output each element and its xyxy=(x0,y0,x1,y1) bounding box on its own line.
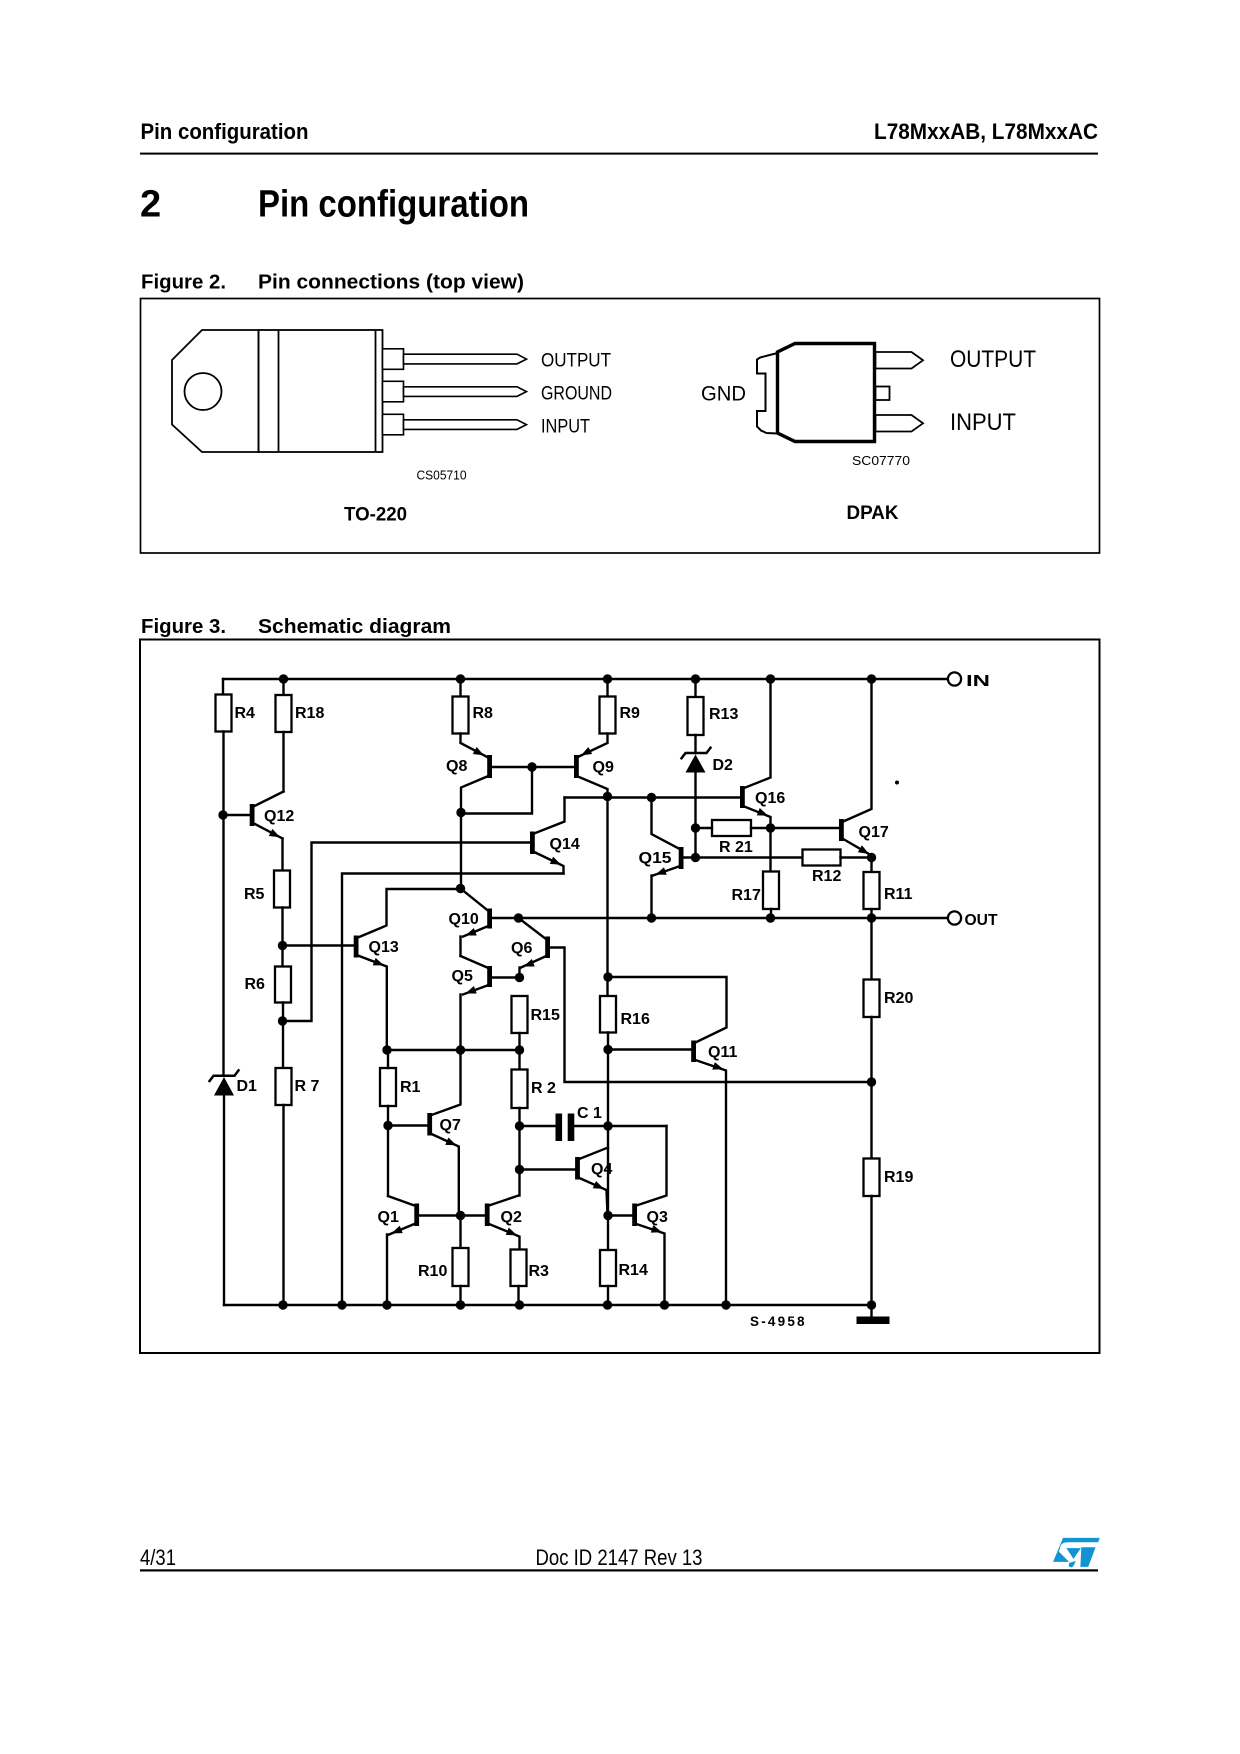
node IN rail at Q17 collector xyxy=(867,674,876,683)
svg-text:GROUND: GROUND xyxy=(541,384,612,405)
node IN rail at R8 xyxy=(456,674,465,683)
wire IN rail xyxy=(223,678,948,680)
node ground rail at Q11 emitter xyxy=(721,1300,730,1309)
resistor R10 xyxy=(453,1248,469,1286)
svg-text:R19: R19 xyxy=(884,1169,913,1186)
wire IN rail to R18 xyxy=(282,679,284,695)
resistor R4 xyxy=(216,695,232,732)
wire Q17 base xyxy=(771,827,840,829)
node R21 left tap xyxy=(691,823,700,832)
resistor R15 xyxy=(512,996,528,1033)
figure 3 frame xyxy=(140,640,1100,1354)
svg-text:Q7: Q7 xyxy=(440,1117,461,1134)
svg-text:Q16: Q16 xyxy=(755,790,785,807)
svg-text:INPUT: INPUT xyxy=(950,409,1016,436)
svg-text:R13: R13 xyxy=(709,706,738,723)
wire R1 to Q1 collector xyxy=(387,1106,389,1196)
node IN rail at Q16 collector xyxy=(766,674,775,683)
svg-text:GND: GND xyxy=(701,383,746,406)
transistor Q10 xyxy=(461,889,493,940)
DPAK INPUT lead xyxy=(876,415,924,432)
wire Q6 base to divider xyxy=(549,948,871,1083)
wire bias node Q14 collector to Q16 base xyxy=(565,796,741,798)
node OUT rail at R17 xyxy=(766,913,775,922)
node ground rail at Q14 emitter run xyxy=(337,1300,346,1309)
transistor Q3 xyxy=(632,1126,666,1305)
wire R17 to OUT rail xyxy=(770,909,772,918)
transistor Q8 xyxy=(461,734,575,889)
transistor Q15 xyxy=(652,798,803,919)
svg-text:R 2: R 2 xyxy=(531,1080,556,1097)
svg-text:Doc ID 2147 Rev 13: Doc ID 2147 Rev 13 xyxy=(536,1545,703,1570)
svg-text:R10: R10 xyxy=(418,1263,447,1280)
svg-text:R3: R3 xyxy=(529,1263,550,1280)
DPAK GND tab xyxy=(757,353,778,434)
transistor Q16 xyxy=(740,679,771,828)
wire OUT rail to R20 xyxy=(870,918,872,980)
svg-text:Q11: Q11 xyxy=(708,1044,737,1061)
wire Q3 base xyxy=(608,1214,632,1216)
wire Q11 base xyxy=(608,1048,691,1050)
resistor R9 xyxy=(600,697,616,734)
node Q11 collector tap xyxy=(603,972,612,981)
wire R4 to D1 xyxy=(222,732,224,1076)
node Q7 base junction xyxy=(383,1121,392,1130)
wire R7 to ground rail xyxy=(282,1105,284,1305)
transistor Q12 xyxy=(223,792,284,841)
svg-text:Schematic diagram: Schematic diagram xyxy=(258,616,451,638)
svg-text:Q10: Q10 xyxy=(449,911,479,928)
node IN rail at R9 xyxy=(603,674,612,683)
wire Q1 Q2 base tie xyxy=(419,1214,485,1216)
svg-text:S-4958: S-4958 xyxy=(750,1314,807,1329)
svg-text:SC07770: SC07770 xyxy=(852,454,910,468)
zener diode D1 xyxy=(210,1070,239,1095)
resistor R19 xyxy=(864,1159,880,1197)
wire Q14 emitter run xyxy=(342,874,564,1306)
node ground rail at R3 xyxy=(515,1300,524,1309)
resistor R1 xyxy=(380,1068,396,1106)
svg-text:Q17: Q17 xyxy=(859,824,889,841)
wire R14 to ground rail xyxy=(607,1286,609,1305)
node Q17 emitter junction xyxy=(867,853,876,862)
transistor Q9 xyxy=(574,734,608,797)
svg-text:Figure 3.: Figure 3. xyxy=(141,616,226,638)
svg-text:TO-220: TO-220 xyxy=(344,504,407,526)
svg-text:R1: R1 xyxy=(400,1079,421,1096)
resistor R16 xyxy=(600,996,616,1033)
transistor Q7 xyxy=(427,1050,460,1216)
footer rule xyxy=(140,1569,1098,1571)
svg-text:OUTPUT: OUTPUT xyxy=(950,346,1036,373)
svg-text:Q12: Q12 xyxy=(264,808,294,825)
transistor Q17 xyxy=(839,679,872,872)
wire C1 right lead xyxy=(574,1125,666,1127)
node bias at Q15 collector xyxy=(647,793,656,802)
resistor R2 xyxy=(512,1070,528,1109)
wire R21 left lead xyxy=(696,827,713,829)
node Q12 base tap xyxy=(218,810,227,819)
node tail node at R15 xyxy=(515,1045,524,1054)
node mirror bus at Q13 collector xyxy=(456,884,465,893)
wire R12 right lead xyxy=(841,856,872,858)
wire OUT rail xyxy=(491,917,948,919)
svg-text:R 7: R 7 xyxy=(295,1078,320,1095)
node ground rail at Q1 emitter xyxy=(382,1300,391,1309)
wire D2 anode to Q15 base xyxy=(694,773,696,858)
node IN rail at R18 xyxy=(279,674,288,683)
wire IN rail to R13 xyxy=(694,679,696,697)
svg-text:R15: R15 xyxy=(531,1007,560,1024)
svg-text:D2: D2 xyxy=(713,757,734,774)
node Q14 base return tap xyxy=(278,1016,287,1025)
resistor R6 xyxy=(275,967,291,1003)
node Q13 base tap xyxy=(278,941,287,950)
wire R3 to ground rail xyxy=(517,1286,519,1305)
transistor Q13 xyxy=(354,889,461,1050)
svg-text:Q1: Q1 xyxy=(378,1209,399,1226)
node Q8 Q9 base tie xyxy=(527,762,536,771)
svg-text:Q13: Q13 xyxy=(369,939,399,956)
transistor Q14 xyxy=(530,798,565,874)
wire R6 to R7 xyxy=(282,1003,284,1069)
svg-text:4/31: 4/31 xyxy=(140,1545,176,1570)
svg-text:C 1: C 1 xyxy=(577,1105,602,1122)
wire Q10 emitter to Q5 collector xyxy=(459,937,461,957)
node Q5 emitter tail xyxy=(456,1045,465,1054)
wire Q16 emitter to R17 xyxy=(769,828,771,872)
node Q9 collector xyxy=(603,792,612,801)
figure 2 frame xyxy=(141,299,1100,554)
wire C1 left lead xyxy=(520,1125,556,1127)
resistor R7 xyxy=(276,1068,292,1105)
svg-text:OUTPUT: OUTPUT xyxy=(541,351,611,372)
svg-text:Q2: Q2 xyxy=(501,1209,522,1226)
svg-text:IN: IN xyxy=(966,673,990,690)
wire R2 to Q2 collector xyxy=(518,1108,520,1196)
wire IN rail to R9 xyxy=(606,679,608,697)
svg-text:D1: D1 xyxy=(237,1078,258,1095)
svg-text:Pin configuration: Pin configuration xyxy=(258,184,529,226)
wire R20 to R19 xyxy=(870,1017,872,1159)
capacitor C1 xyxy=(556,1114,575,1142)
svg-text:Pin connections (top view): Pin connections (top view) xyxy=(258,272,524,294)
svg-text:CS05710: CS05710 xyxy=(417,468,467,483)
transistor Q2 xyxy=(485,1196,520,1250)
wire R19 to ground xyxy=(870,1196,872,1317)
wire Q7 base xyxy=(388,1124,427,1126)
svg-text:Q14: Q14 xyxy=(550,836,580,853)
node ground rail at R19 xyxy=(867,1300,876,1309)
svg-text:R18: R18 xyxy=(295,705,324,722)
zener diode D2 xyxy=(682,748,711,773)
transistor Q4 xyxy=(575,1148,608,1216)
svg-text:DPAK: DPAK xyxy=(847,502,899,524)
node Q16 emitter junction xyxy=(766,823,775,832)
node ground rail at R10 xyxy=(456,1300,465,1309)
resistor R11 xyxy=(864,872,880,909)
node ground rail at Q3 emitter xyxy=(660,1300,669,1309)
wire R11 to OUT rail xyxy=(870,909,872,918)
node Q15 base tap xyxy=(691,853,700,862)
svg-text:R 21: R 21 xyxy=(719,839,753,856)
wire Q1 emitter to ground rail xyxy=(386,1235,388,1306)
svg-text:R8: R8 xyxy=(473,705,494,722)
header rule xyxy=(140,153,1098,155)
wire D1 to ground rail xyxy=(223,1096,225,1306)
resistor R3 xyxy=(511,1250,527,1287)
wire ground rail xyxy=(224,1304,872,1306)
node Q4 base tap xyxy=(515,1165,524,1174)
resistor R12 xyxy=(803,850,841,866)
wire R13 to D2 xyxy=(694,735,696,753)
node OUT rail at Q15 emitter xyxy=(647,913,656,922)
node OUT rail at R11 xyxy=(867,913,876,922)
node C1 left tap xyxy=(515,1121,524,1130)
wire Q9 collector to R16 xyxy=(606,797,608,997)
wire R5 to R6 xyxy=(281,908,283,967)
svg-text:R9: R9 xyxy=(620,705,641,722)
terminal IN xyxy=(948,672,961,685)
svg-text:Q8: Q8 xyxy=(446,758,467,775)
svg-text:Q9: Q9 xyxy=(593,759,614,776)
svg-text:L78MxxAB, L78MxxAC: L78MxxAB, L78MxxAC xyxy=(874,119,1098,144)
TO-220 body xyxy=(259,330,383,452)
transistor Q5 xyxy=(461,956,520,997)
resistor R17 xyxy=(763,872,779,910)
resistor R14 xyxy=(600,1250,616,1286)
ST logo xyxy=(1053,1538,1100,1568)
wire R18 to Q12 collector xyxy=(282,732,284,792)
TO-220 package tab xyxy=(172,330,259,452)
svg-text:Q4: Q4 xyxy=(591,1161,612,1178)
svg-text:Figure 2.: Figure 2. xyxy=(141,272,226,294)
resistor R8 xyxy=(453,697,469,734)
node divider mid junction xyxy=(867,1077,876,1086)
TO-220 INPUT lead pin 1 xyxy=(383,414,527,435)
svg-text:Q3: Q3 xyxy=(647,1209,668,1226)
svg-text:R20: R20 xyxy=(884,990,913,1007)
wire tail current node xyxy=(387,1049,520,1051)
wire Q14 base run xyxy=(283,843,531,1022)
node IN rail at R13 xyxy=(691,674,700,683)
node Q8 collector diode tie xyxy=(456,808,465,817)
svg-text:Q5: Q5 xyxy=(452,968,473,985)
svg-text:Q15: Q15 xyxy=(639,850,672,867)
DPAK center stub xyxy=(876,387,890,401)
ground xyxy=(857,1317,890,1325)
wire tail node to R1 xyxy=(387,1050,389,1068)
wire R10 to ground rail xyxy=(459,1286,461,1305)
svg-text:R11: R11 xyxy=(884,886,913,903)
transistor Q1 xyxy=(388,1196,419,1237)
node Q11 base tap xyxy=(603,1045,612,1054)
wire R16 to R14 xyxy=(607,1033,609,1251)
node OUT rail at Q6 collector xyxy=(514,913,523,922)
svg-text:R5: R5 xyxy=(244,886,265,903)
wire Q5 emitter to tail node xyxy=(459,995,461,1051)
node Q5 base junction xyxy=(515,973,524,982)
node ground rail at R7 xyxy=(278,1300,287,1309)
svg-text:R17: R17 xyxy=(732,887,761,904)
resistor R21 xyxy=(712,820,751,836)
resistor R20 xyxy=(864,980,880,1018)
node C1 right tap xyxy=(603,1121,612,1130)
svg-text:2: 2 xyxy=(140,184,161,226)
TO-220 mounting hole xyxy=(185,373,222,410)
DPAK OUTPUT lead xyxy=(876,352,924,369)
svg-text:Q6: Q6 xyxy=(511,940,532,957)
stray mark xyxy=(895,781,899,785)
wire R15 to R2 xyxy=(518,1033,520,1070)
svg-text:R12: R12 xyxy=(812,868,841,885)
resistor R5 xyxy=(274,871,290,908)
wire Q13 base xyxy=(283,944,354,946)
resistor R18 xyxy=(276,695,292,732)
resistor R13 xyxy=(688,697,704,735)
wire IN rail corner to R4 xyxy=(222,679,224,695)
svg-text:Pin configuration: Pin configuration xyxy=(141,119,309,144)
wire base tie to R10 xyxy=(459,1216,461,1249)
node base tie at R10 xyxy=(456,1211,465,1220)
node tail node at R1 xyxy=(382,1045,391,1054)
wire IN rail to R8 xyxy=(459,679,461,697)
svg-text:R16: R16 xyxy=(621,1011,650,1028)
transistor Q6 xyxy=(519,918,551,978)
node Q3 base tap xyxy=(603,1211,612,1220)
svg-text:INPUT: INPUT xyxy=(541,417,590,438)
TO-220 GROUND lead pin 2 xyxy=(383,381,527,402)
wire Q12 emitter to R5 xyxy=(281,839,283,871)
terminal OUT xyxy=(948,911,961,924)
svg-text:OUT: OUT xyxy=(965,912,998,929)
wire R21 right lead xyxy=(751,827,771,829)
svg-text:R4: R4 xyxy=(235,705,256,722)
DPAK body xyxy=(778,344,875,442)
svg-text:R6: R6 xyxy=(245,976,266,993)
TO-220 OUTPUT lead pin 3 xyxy=(383,349,527,370)
wire Q4 base xyxy=(520,1168,576,1170)
svg-text:R14: R14 xyxy=(619,1262,648,1279)
node ground rail at R14 xyxy=(603,1300,612,1309)
transistor Q11 xyxy=(608,977,727,1305)
